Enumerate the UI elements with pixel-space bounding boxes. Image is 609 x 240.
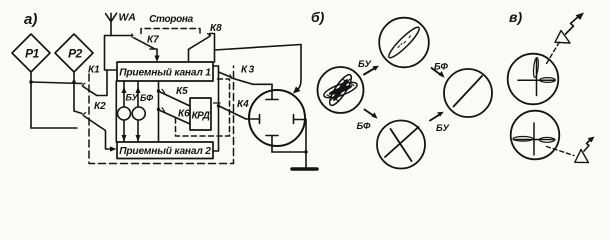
brush right: [294, 115, 307, 124]
wire right vertical bus: [213, 66, 219, 151]
label Storona: [149, 14, 194, 25]
wire K1 to channel1: [97, 70, 108, 96]
svg-text:а): а): [24, 11, 37, 28]
svg-text:БФ: БФ: [140, 93, 153, 103]
svg-text:б): б): [311, 9, 325, 25]
circle ellipse-mode: [379, 18, 429, 68]
section label v: [509, 9, 522, 25]
arrow BU bottom-right: [430, 114, 440, 120]
svg-text:БУ: БУ: [436, 123, 450, 134]
brush top: [266, 84, 278, 99]
circle cross-mode: [377, 121, 425, 169]
switch K7 label: [147, 35, 159, 46]
arrow line BU: [123, 82, 125, 142]
wire WA to K7: [111, 35, 133, 37]
antenna WA label: [119, 12, 137, 24]
circle rotor-knot: [318, 67, 364, 113]
svg-text:Р1: Р1: [25, 47, 40, 61]
wire channel1 left to channel2: [115, 81, 117, 142]
svg-text:БУ: БУ: [126, 93, 139, 103]
switch K2 label: [94, 101, 106, 112]
svg-text:WA: WA: [119, 12, 137, 24]
switch K6 label: [178, 109, 190, 120]
node K6: [157, 108, 160, 111]
wire K8 long down and arrow to motor: [297, 45, 302, 91]
svg-text:К8: К8: [210, 23, 222, 34]
arrow line BF: [137, 82, 139, 142]
node join: [304, 150, 307, 153]
svg-text:К2: К2: [94, 101, 106, 112]
svg-text:К7: К7: [147, 35, 159, 46]
brush left: [259, 115, 261, 124]
wire WA to channel1: [105, 36, 118, 71]
antenna WA: [106, 13, 117, 35]
wire K7 to channel1 with arrow: [150, 49, 157, 56]
wire branch to K3: [219, 72, 231, 77]
switch K3: [232, 78, 254, 84]
brush bottom: [266, 136, 278, 153]
label BF: [140, 93, 153, 103]
wire K2 to channel2: [98, 126, 110, 150]
wire P2 down: [74, 72, 82, 114]
ground: [292, 167, 317, 171]
wire bus2: [31, 127, 77, 129]
dashed bracket Storona: [141, 29, 200, 35]
svg-text:К3: К3: [241, 65, 256, 76]
dashed box around K5 K6 KRD: [176, 79, 230, 136]
switch K7: [134, 38, 154, 49]
lightning arrow bottom: [584, 140, 591, 152]
antenna triangle top: [555, 31, 570, 44]
svg-text:К5: К5: [176, 86, 188, 97]
switch K6: [160, 111, 190, 125]
switch K1 label: [88, 65, 100, 76]
wire P1 down: [30, 72, 32, 128]
antenna P2 label: [68, 47, 83, 61]
wire bottom brush to right: [272, 151, 306, 153]
switch K4: [220, 107, 246, 120]
node P2-bus1: [72, 80, 75, 83]
switch K4 label: [237, 99, 249, 110]
svg-text:К1: К1: [88, 65, 100, 76]
svg-text:БФ: БФ: [357, 121, 371, 132]
wire right brush down: [305, 120, 307, 168]
switch K5 label: [176, 86, 188, 97]
arrow BU left-top: [364, 68, 375, 75]
box receiver channel 1: [117, 62, 213, 81]
circle rotor vertical: [508, 54, 559, 105]
svg-text:БУ: БУ: [358, 59, 372, 70]
label BU: [126, 93, 139, 103]
node circle on BF line: [132, 107, 145, 120]
antenna P2 (diamond): [55, 34, 93, 72]
wire bus1: [31, 82, 82, 84]
switch K5: [160, 92, 190, 106]
antenna P1 (diamond): [12, 34, 50, 72]
svg-text:КРД: КРД: [192, 111, 210, 122]
wire channel1 to K5/K6: [158, 81, 160, 142]
wire channel1 up to K8: [188, 49, 190, 62]
circle rotor horizontal: [511, 111, 560, 160]
wire K4 to motor: [246, 118, 260, 120]
svg-text:Приемный канал 2: Приемный канал 2: [119, 146, 211, 157]
arrow into channel2: [110, 146, 117, 151]
antenna triangle bottom: [575, 150, 589, 163]
antenna P1 label: [25, 47, 40, 61]
switch K1: [83, 87, 97, 96]
wire K8 corner: [210, 34, 215, 63]
section label b: [311, 9, 325, 25]
node K5: [157, 89, 160, 92]
svg-text:Сторона: Сторона: [149, 14, 194, 25]
box receiver channel 2: [117, 142, 213, 159]
svg-text:в): в): [509, 9, 522, 25]
node K4: [217, 104, 220, 107]
svg-text:К6: К6: [178, 109, 190, 120]
switch K2: [84, 116, 98, 126]
svg-text:БФ: БФ: [434, 62, 448, 73]
big dashed box: [89, 66, 234, 164]
switch K3 label: [241, 65, 256, 76]
wire K8 output long: [215, 45, 302, 51]
dashed line to antenna bottom: [547, 147, 575, 156]
dashed line to antenna top: [547, 41, 561, 64]
box KRD: [190, 98, 211, 130]
node P1-bus1: [29, 80, 32, 83]
svg-text:Приемный канал 1: Приемный канал 1: [119, 68, 211, 79]
arrow BF top-right: [432, 68, 442, 75]
circle line-mode: [444, 69, 492, 117]
switch K8: [189, 37, 210, 50]
node circle on BU line: [118, 107, 131, 120]
lightning arrow top: [566, 17, 579, 35]
svg-text:К4: К4: [237, 99, 249, 110]
motor commutator circle: [249, 90, 305, 146]
switch K8 label: [210, 23, 222, 34]
wire K3 to motor: [253, 83, 272, 85]
arrow BF left-bottom: [365, 110, 375, 117]
section label a: [24, 11, 37, 28]
svg-text:Р2: Р2: [68, 47, 83, 61]
